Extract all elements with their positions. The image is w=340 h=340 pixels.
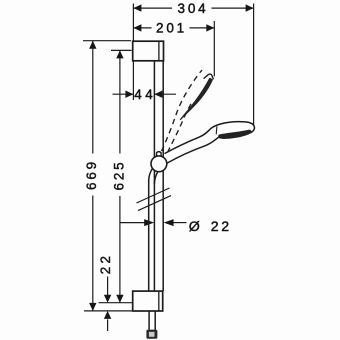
dashed shower head spray face (dark band) — [180, 78, 213, 121]
svg-text:22: 22 — [98, 253, 113, 274]
hose upper curve — [149, 169, 153, 292]
dimension 625 line — [119, 50, 121, 153]
rail bar — [153, 61, 155, 291]
hand shower handle top edge and head outline — [165, 122, 255, 154]
dimension 304 line — [133, 7, 172, 9]
svg-text:Ø: Ø — [189, 219, 200, 235]
extension line right (x=253.6) — [253, 4, 255, 126]
holder knob nub — [156, 152, 161, 157]
dimension 669 line — [92, 41, 94, 154]
hand shower handle bottom edge — [167, 137, 219, 163]
hand shower spray face (dark band) — [218, 130, 252, 139]
bottom bracket — [133, 291, 163, 311]
hose below bracket — [148, 311, 150, 330]
rail break mark — [137, 188, 172, 211]
wall bracket plate — [133, 41, 164, 61]
dimension 22 line — [107, 277, 109, 296]
dimension 44 line — [113, 93, 134, 95]
extension line left (x=133.4) — [132, 4, 134, 101]
svg-text:201: 201 — [156, 21, 187, 36]
extension line mid (x=214.3) — [213, 21, 215, 77]
extension line bottom y=310.9 — [84, 310, 133, 312]
dashed shower head cap — [204, 74, 214, 79]
svg-text:304: 304 — [178, 1, 209, 16]
hand shower dashed alternate position (handle outline) — [162, 70, 203, 151]
extension line top-left y=40.7 — [83, 40, 131, 42]
extension line bottom y=302.7 — [99, 302, 135, 304]
hose end nut — [146, 330, 157, 339]
svg-text:625: 625 — [111, 160, 126, 191]
svg-text:669: 669 — [84, 159, 99, 190]
svg-text:22: 22 — [211, 219, 232, 235]
holder knob — [151, 156, 167, 172]
dimension diameter 22 line — [121, 222, 146, 224]
head detail tick — [215, 126, 218, 134]
svg-text:44: 44 — [134, 87, 156, 102]
extension line y=50.4 — [111, 49, 132, 51]
dimension 201 line — [133, 27, 151, 29]
